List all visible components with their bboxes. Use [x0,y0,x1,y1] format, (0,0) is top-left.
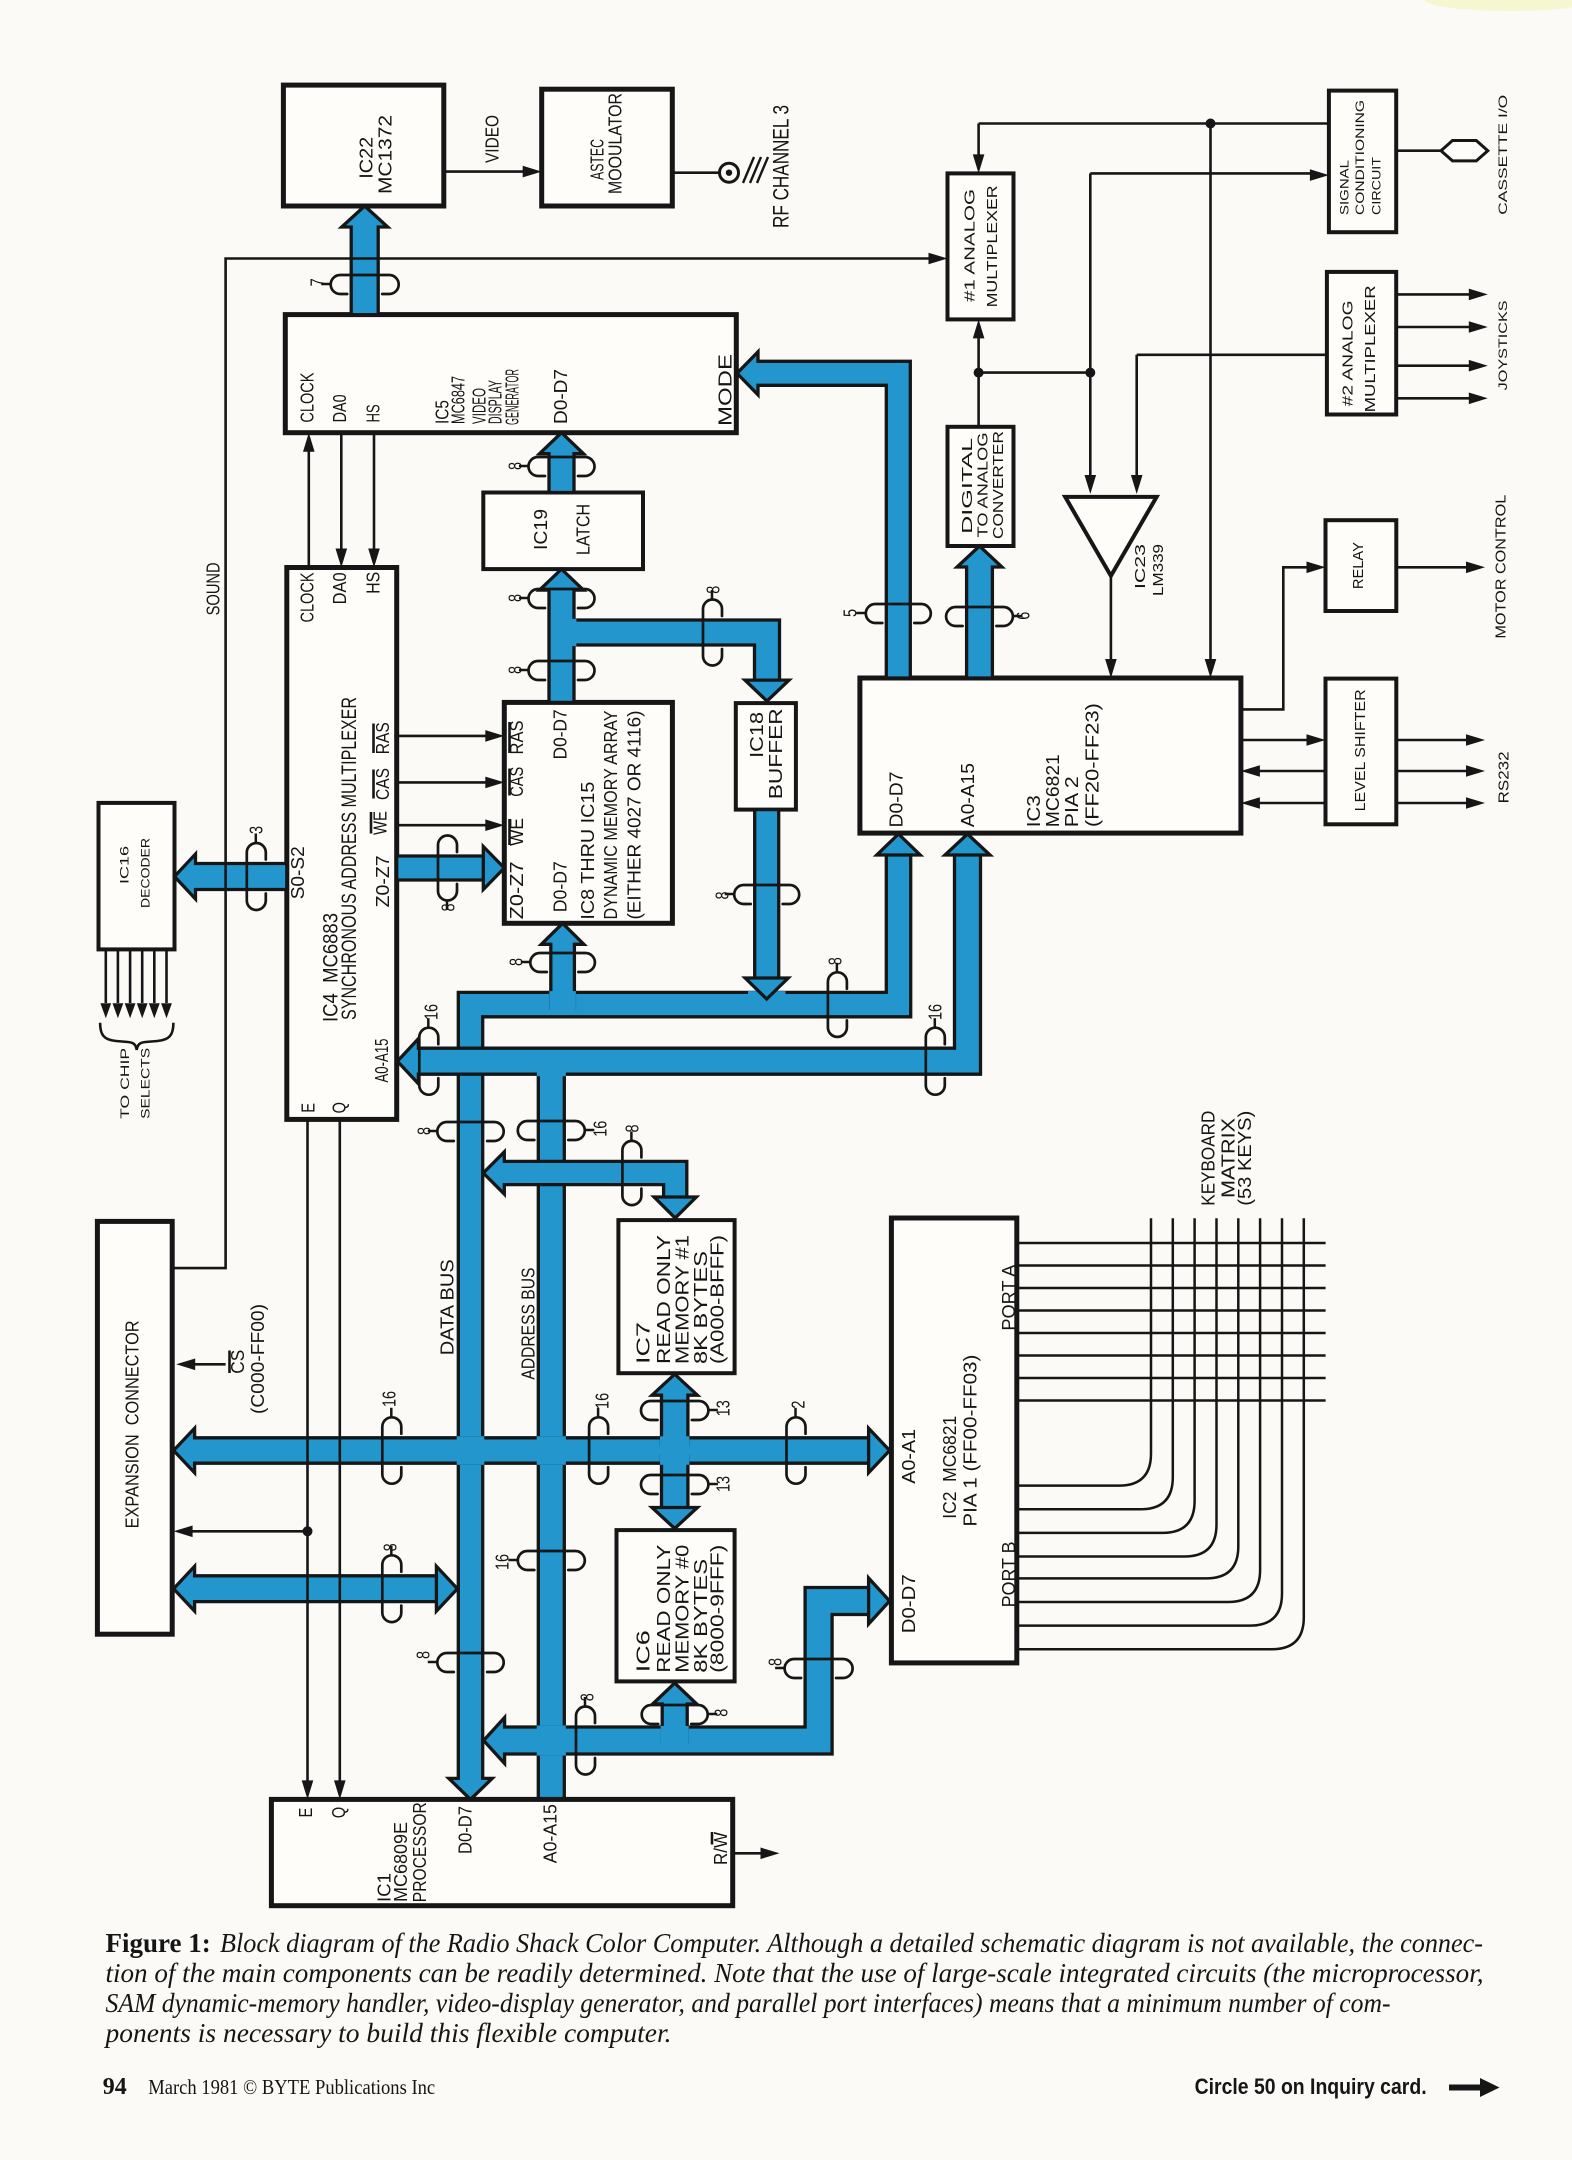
svg-text:16: 16 [493,1554,513,1570]
RF output connector [720,163,739,182]
wire VIDEO from IC22 to modulator [444,170,528,173]
wire DAC output net [977,334,980,427]
svg-text:Q: Q [330,1102,350,1113]
svg-text:MC6821: MC6821 [1044,754,1064,827]
svg-text:5: 5 [841,609,861,617]
svg-text:16: 16 [926,1004,946,1020]
box #1 analog multiplexer [948,173,1014,319]
bus tick 16 address vertical lower [518,1551,585,1570]
svg-text:IC3: IC3 [1025,795,1045,827]
svg-text:RAS: RAS [374,722,394,754]
junction dot DAC net [974,368,984,378]
bus tick 16 A0-A15 left [419,1028,438,1095]
svg-text:CIRCUIT: CIRCUIT [1371,157,1384,215]
svg-text:16: 16 [591,1121,611,1137]
svg-text:94: 94 [103,2074,127,2100]
svg-text:16: 16 [422,1004,442,1020]
bus tick 16 mid [589,1417,608,1483]
svg-text:7: 7 [308,278,328,286]
chip ASTEC modulator [542,89,673,206]
box level shifter [1326,679,1397,825]
svg-text:IC22: IC22 [357,137,377,179]
svg-text:MEMORY #1: MEMORY #1 [673,1235,693,1364]
svg-text:(A000-BFFF): (A000-BFFF) [708,1235,728,1364]
svg-text:SYNCHRONOUS ADDRESS MULTIPLEXE: SYNCHRONOUS ADDRESS MULTIPLEXER [337,697,361,1020]
wire RAS IC4 to memory [397,735,490,738]
wire DAC net to signal conditioning [1089,173,1092,372]
chip IC19 latch [483,493,643,570]
chip IC2 MC6821 PIA 1 [891,1218,1016,1663]
wires decoder outputs to chip selects [105,949,108,1003]
svg-text:IC7: IC7 [634,1322,654,1364]
svg-text:PORT B: PORT B [1000,1541,1020,1607]
bus 8 IC6 riser to bottom bus [653,1683,697,1742]
svg-text:D0-D7: D0-D7 [887,772,907,828]
wire CS stub to expansion [190,1363,226,1366]
bus tick 8 expansion data [382,1555,401,1622]
bus tick 8 on tee branch [703,600,722,666]
junction dot DAC net right [1085,368,1095,378]
connector cassette hexagon [1441,141,1488,161]
svg-text:MOTOR CONTROL: MOTOR CONTROL [1492,495,1508,639]
box #2 analog multiplexer [1327,272,1396,415]
bus memory D0-D7 riser [541,923,584,1008]
bus tick 16 expansion [382,1417,401,1483]
svg-text:MC6809E: MC6809E [392,1822,412,1902]
bus 8 bottom data run to IC2 D0-D7 [484,1578,890,1764]
svg-text:8: 8 [415,1127,435,1135]
wire #2 mux output to comparator [1137,353,1327,356]
svg-text:GENERATOR: GENERATOR [503,369,523,425]
wire WE IC4 to memory [397,824,490,827]
svg-text:SOUND: SOUND [204,562,224,615]
svg-text:(EITHER 4027 OR 4116): (EITHER 4027 OR 4116) [625,711,645,920]
svg-text:CAS: CAS [374,768,394,800]
svg-text:8: 8 [439,903,459,911]
svg-text:D0-D7: D0-D7 [552,369,572,424]
junction dot on top net [1206,119,1216,129]
chip IC22 MC1372 video mixer [283,85,443,206]
svg-text:8: 8 [826,957,846,965]
wire net sound/test to #1 analog mux and signal conditioning [979,122,1329,125]
svg-text:HS: HS [364,404,384,422]
svg-text:13: 13 [714,1400,734,1416]
bus tick 8 latch-IC5 [529,457,595,476]
svg-text:Circle 50 on Inquiry card.: Circle 50 on Inquiry card. [1195,2074,1427,2099]
svg-text:IC23: IC23 [1132,544,1148,589]
brace to chip selects [100,1023,173,1050]
chip expansion connector [97,1221,172,1634]
chip IC6 read only memory 0 [617,1530,735,1681]
svg-text:RF CHANNEL 3: RF CHANNEL 3 [770,105,794,228]
svg-text:E: E [299,1103,319,1113]
bus MODE IC3 to IC5 [737,352,910,678]
svg-text:CASSETTE I/O: CASSETTE I/O [1498,95,1511,215]
svg-text:IC8 THRU IC15: IC8 THRU IC15 [579,782,599,920]
wire E branch to expansion [188,1530,308,1533]
bus tick 8 above tee [529,589,595,608]
bus 8 memory D0-D7 up to latch with tee to IC18 [540,569,584,702]
svg-text:8: 8 [623,1124,643,1132]
bus tick 13 IC6 [641,1475,708,1494]
svg-text:D0-D7: D0-D7 [551,709,571,759]
svg-text:WE: WE [371,811,391,835]
svg-text:8: 8 [766,1658,786,1666]
svg-text:Figure 1:: Figure 1: [106,1928,211,1958]
svg-text:PIA 2: PIA 2 [1063,776,1083,827]
svg-text:MOOULATOR: MOOULATOR [606,93,626,194]
bus 8-wide Z0-Z7 IC4 to memory [397,847,505,890]
svg-text:Z0-Z7: Z0-Z7 [508,861,528,919]
wire modulator to RF connector [672,171,719,174]
wire signal conditioning to cassette [1396,149,1441,152]
bus tick 8 memory riser [530,953,595,972]
junction dot E to expansion [303,1526,313,1536]
svg-text:D0-D7: D0-D7 [900,1574,920,1633]
svg-text:RS232: RS232 [1495,751,1511,803]
bus 3-wide S0-S2 IC4 to IC16 [175,854,287,899]
bus tick 8 data vertical lower [437,1653,503,1672]
bus tick 13 IC7 [641,1401,708,1420]
svg-text:Block diagram of the Radio Sha: Block diagram of the Radio Shack Color C… [220,1928,1483,1958]
wire relay to motor control [1396,566,1470,569]
bus 13 to IC6 [652,1456,697,1529]
wires #2 mux to joysticks [1396,293,1473,296]
svg-text:8: 8 [704,586,724,594]
bus 7-wide IC5 to IC22 [342,206,388,315]
bus tick 8 IC6 lower [642,1705,708,1724]
svg-text:LM339: LM339 [1150,544,1166,596]
bus tick 16 address vertical upper [518,1121,585,1140]
svg-text:(FF20-FF23): (FF20-FF23) [1083,703,1103,827]
svg-text:DATA BUS: DATA BUS [438,1259,458,1355]
bus tick 6 on DAC bus [946,607,1013,626]
bus tick 8 bottom riser [785,1659,853,1678]
svg-text:DECODER: DECODER [140,838,153,908]
bus ADDRESS BUS vertical [538,1063,564,1799]
wires keyboard matrix port A rows [1017,1242,1326,1245]
wire R/W out [733,1852,765,1855]
svg-text:D0-D7: D0-D7 [456,1806,476,1854]
bus 8 latch to IC5 [540,433,584,493]
chip IC3 MC6821 PIA 2 [860,678,1241,833]
svg-text:6: 6 [1014,612,1034,620]
wire DA0 IC5 to IC4 [340,433,343,553]
svg-text:IC19: IC19 [532,509,552,550]
svg-text:VIDEO: VIDEO [483,115,503,163]
chip IC5 MC6847 video display generator [285,315,736,433]
svg-text:8: 8 [414,1651,434,1659]
bus IC18 riser down to data bus [748,991,786,995]
svg-text:8: 8 [506,594,526,602]
overline WE CAS RAS on memory pins [508,819,511,845]
chip IC8-IC15 dynamic memory array [504,702,672,923]
svg-text:IC2 MC6821: IC2 MC6821 [941,1416,961,1519]
bus tick 8 bottom left [576,1707,595,1775]
bus tick 8 Z0-Z7 [438,836,457,901]
svg-text:DYNAMIC MEMORY ARRAY: DYNAMIC MEMORY ARRAY [602,710,622,919]
svg-text:PROCESSOR: PROCESSOR [411,1802,431,1902]
bus 16 address to expansion and IC2 [174,1428,890,1472]
svg-text:ASTEC: ASTEC [588,139,608,180]
svg-text:CS: CS [229,1350,249,1374]
svg-text:CLOCK: CLOCK [298,572,318,622]
bus tick 16 A0-A15 right [926,1028,945,1095]
ground symbol at RF connector [743,157,754,183]
svg-text:ponents is necessary to build: ponents is necessary to build this flexi… [103,2018,671,2048]
svg-text:LEVEL SHIFTER: LEVEL SHIFTER [1352,689,1368,811]
svg-text:IC16: IC16 [119,846,132,884]
bus tick 8 data vertical upper [437,1122,503,1141]
comparator IC23 LM339 [1065,497,1156,576]
svg-text:tion of the main components ca: tion of the main components can be readi… [106,1958,1484,1988]
svg-text:#2 ANALOG: #2 ANALOG [1339,300,1355,406]
svg-text:Q: Q [330,1807,350,1818]
overline on W of R/W [711,1832,714,1845]
bus A0-A15 horizontal IC4 to IC3 [397,834,990,1084]
wires level shifter to RS232 [1396,739,1470,742]
wire level shifter to IC3 b [1255,802,1326,805]
svg-text:8: 8 [507,958,527,966]
svg-text:D0-D7: D0-D7 [551,861,571,912]
wire comparator output to IC3 [1110,576,1113,664]
svg-text:MC6847: MC6847 [449,376,469,424]
svg-text:RELAY: RELAY [1350,542,1366,589]
svg-text:(8000-9FFF): (8000-9FFF) [708,1545,728,1673]
wire level shifter to IC3 a [1255,770,1326,773]
svg-text:A0-A15: A0-A15 [959,763,979,827]
box relay [1326,520,1397,611]
svg-text:3: 3 [247,826,267,834]
svg-text:Z0-Z7: Z0-Z7 [374,855,394,907]
svg-text:TO CHIP: TO CHIP [119,1047,132,1119]
box signal conditioning circuit [1329,91,1396,233]
svg-text:DIGITAL: DIGITAL [959,438,975,534]
svg-text:R/W: R/W [712,1831,732,1865]
svg-text:JOYSTICKS: JOYSTICKS [1498,300,1511,390]
svg-text:2: 2 [789,1401,809,1409]
wire E IC4 to IC1 [306,1119,309,1785]
overline WE CAS RAS on IC4 pins [370,812,373,834]
bus tick 8 data horizontal [828,972,847,1037]
bus tick 3 [247,843,266,910]
wire IC3 to relay [1241,567,1311,709]
box digital to analog converter [948,427,1014,546]
bus tick 7 [331,275,399,294]
svg-text:8: 8 [578,1693,598,1701]
svg-text:16: 16 [593,1393,613,1409]
svg-text:13: 13 [714,1476,734,1492]
bus IC3 to DAC [957,546,1002,678]
wire IC3 to level shifter [1241,739,1311,742]
bus tick 8 on IC7 branch [622,1141,641,1205]
svg-text:8: 8 [506,666,526,674]
svg-text:IC6: IC6 [634,1630,654,1672]
svg-text:EXPANSION CONNECTOR: EXPANSION CONNECTOR [123,1320,143,1528]
svg-text:A0-A15: A0-A15 [541,1804,561,1863]
svg-text:SAM dynamic-memory handler, vi: SAM dynamic-memory handler, video-displa… [106,1988,1391,2018]
svg-text:IC18: IC18 [747,712,767,758]
chip IC1 MC6809E processor [271,1799,732,1905]
svg-text:8: 8 [713,891,733,899]
svg-text:PORT A: PORT A [1000,1265,1020,1331]
wire CLOCK IC4 to IC5 [307,448,310,568]
svg-text:16: 16 [380,1391,400,1407]
svg-text:DA0: DA0 [330,394,350,422]
svg-text:ADDRESS BUS: ADDRESS BUS [519,1268,539,1380]
svg-text:(C000-FF00): (C000-FF00) [249,1304,269,1414]
svg-text:KEYBOARD: KEYBOARD [1199,1111,1219,1206]
bus tick 8 below tee [529,661,595,680]
svg-text:MC1372: MC1372 [376,115,396,194]
svg-text:DA0: DA0 [330,572,350,604]
chip IC18 buffer [736,703,796,810]
svg-text:8: 8 [712,1709,732,1717]
svg-text:S0-S2: S0-S2 [289,846,309,899]
chip IC4 MC6883 synchronous address multiplexer [287,568,397,1120]
wire DAC net down to comparator [1089,373,1092,480]
wires keyboard matrix port B columns [1017,1218,1151,1485]
bus data trunk: DATA BUS vertical + horizontal + riser to IC3 D0-D7 [449,834,920,1799]
wire HS IC5 to IC4 [373,433,376,553]
svg-text:TO ANALOG: TO ANALOG [974,433,990,538]
svg-text:SELECTS: SELECTS [140,1047,153,1118]
svg-text:MODE: MODE [716,354,736,426]
svg-text:PIA 1 (FF00-FF03): PIA 1 (FF00-FF03) [961,1355,981,1527]
svg-text:8: 8 [506,462,526,470]
chip IC7 read only memory 1 [618,1220,734,1373]
svg-text:SIGNAL: SIGNAL [1339,160,1352,215]
svg-text:MULTIPLEXER: MULTIPLEXER [1362,285,1378,412]
bus 8 data bus to IC7 [483,1152,696,1218]
scan tint top right corner [1425,0,1572,11]
wire junction down to IC3 [1209,124,1212,665]
bus 8 expansion to data bus [174,1566,458,1611]
chip IC16 decoder [99,803,175,950]
svg-text:CONVERTER: CONVERTER [990,431,1006,539]
svg-text:CONDITIONING: CONDITIONING [1355,100,1368,215]
svg-text:CLOCK: CLOCK [298,373,318,423]
bus tick 8 IC18 riser [734,885,799,904]
wire CAS IC4 to memory [397,781,490,784]
svg-text:MULTIPLEXER: MULTIPLEXER [984,185,1000,307]
bus tick 2 to IC2 [787,1417,806,1483]
wire Q IC4 to IC1 [338,1119,341,1785]
bus 13 IC7 riser [652,1374,697,1445]
svg-text:#1 ANALOG: #1 ANALOG [961,189,977,302]
svg-text:8: 8 [381,1543,401,1551]
svg-text:(53 KEYS): (53 KEYS) [1236,1111,1256,1206]
wire sound line [172,259,933,1269]
svg-text:E: E [297,1808,317,1818]
svg-text:READ ONLY: READ ONLY [655,1545,675,1673]
svg-text:March 1981 © BYTE Publications: March 1981 © BYTE Publications Inc [148,2075,435,2099]
svg-text:A0-A1: A0-A1 [900,1429,920,1484]
svg-text:A0-A15: A0-A15 [373,1039,393,1083]
svg-text:READ ONLY: READ ONLY [655,1235,675,1364]
svg-text:MEMORY #0: MEMORY #0 [673,1545,693,1673]
bus tick 5 on MODE bus [866,604,931,623]
svg-text:HS: HS [364,572,384,594]
svg-text:LATCH: LATCH [574,504,594,555]
svg-text:BUFFER: BUFFER [766,708,786,799]
